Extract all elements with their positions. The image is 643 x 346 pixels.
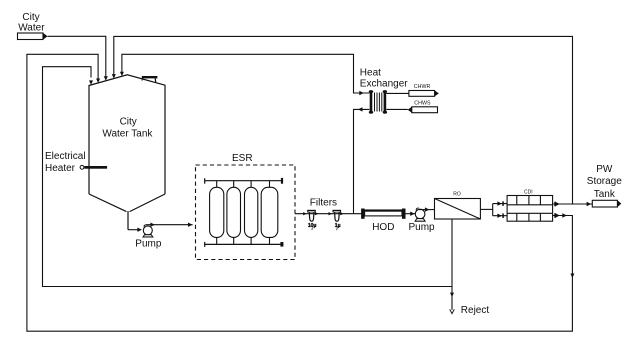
filter F2 xyxy=(333,210,342,221)
svg-text:Exchanger: Exchanger xyxy=(360,79,408,90)
arrow into CDI bottom xyxy=(497,214,502,218)
svg-text:Water Tank: Water Tank xyxy=(102,128,153,139)
svg-text:CHWS: CHWS xyxy=(414,100,431,106)
arrow into ESR xyxy=(188,223,193,227)
filter F1 rating tail xyxy=(311,227,314,230)
arrow after filter F1 xyxy=(315,212,318,215)
wire CHWS to coil xyxy=(386,108,408,110)
filter F1 xyxy=(307,210,316,221)
arrow into pump P1 xyxy=(137,228,142,232)
wire tank outlet to pump xyxy=(128,229,140,231)
arrow into CDI top xyxy=(497,201,502,205)
svg-text:Reject: Reject xyxy=(461,305,490,316)
label PW Storage Tank xyxy=(587,164,622,200)
arrow into filter F1 xyxy=(303,212,306,215)
CHWS flag xyxy=(408,107,438,113)
svg-text:City: City xyxy=(120,117,137,128)
label Electrical Heater xyxy=(45,151,86,174)
tick at CDI bottom outlet xyxy=(554,213,556,218)
arrow after filter F2 xyxy=(340,212,343,215)
svg-text:Heat: Heat xyxy=(360,68,381,79)
arrow CDI bottom outlet xyxy=(555,213,560,217)
wire recirculation loop (CDI bottom out, down right side, bottom, up left side, into tank) xyxy=(27,54,573,331)
tank lid xyxy=(142,76,158,82)
wire CDI top outlet to PW flag xyxy=(553,203,593,205)
HOD vessel xyxy=(361,209,405,219)
heat exchanger coil xyxy=(369,90,387,114)
arrow into PW flag xyxy=(587,202,592,206)
svg-text:CHWR: CHWR xyxy=(414,84,431,90)
arrow CDI top outlet xyxy=(555,202,560,206)
ESR top manifold xyxy=(205,178,282,184)
pump P2 xyxy=(415,208,425,221)
wire pump P2 to RO xyxy=(419,209,435,211)
CDI stack xyxy=(507,196,552,222)
pump P1 xyxy=(143,225,153,237)
svg-text:CDI: CDI xyxy=(524,189,533,195)
wire top return line xyxy=(114,36,573,204)
label Heat Exchanger xyxy=(360,68,408,90)
ESR column 2 xyxy=(227,181,241,245)
arrow into pump P2 xyxy=(410,212,415,216)
svg-text:Heater: Heater xyxy=(45,163,76,174)
wire ESR to filters / main process line xyxy=(295,213,362,215)
label City Water Tank xyxy=(102,117,153,140)
arrow on recirc start xyxy=(562,213,567,217)
CHWR flag xyxy=(409,90,439,96)
arrow into tank (HX line) xyxy=(120,72,124,77)
wire HX feed line xyxy=(122,54,370,93)
arrow into RO xyxy=(425,207,430,211)
electrical heater element xyxy=(80,165,107,169)
svg-text:Electrical: Electrical xyxy=(45,151,86,162)
svg-text:HOD: HOD xyxy=(372,222,394,233)
filter F2 rating 1u xyxy=(335,223,341,229)
label City Water xyxy=(18,12,45,34)
arrow after pump P1 xyxy=(150,223,155,227)
ESR bottom manifold xyxy=(205,242,282,247)
tank City Water Tank xyxy=(89,75,165,230)
filter F2 rating tail xyxy=(336,227,339,230)
svg-text:Storage: Storage xyxy=(587,176,622,187)
arrow down on right vertical xyxy=(570,274,574,279)
city water source flag xyxy=(18,33,48,40)
arrow into heat exchanger coil xyxy=(359,91,364,95)
ESR dashed enclosure xyxy=(196,165,296,260)
wire HOD to pump P2 xyxy=(406,213,416,215)
PW storage flag xyxy=(592,200,621,207)
tick at CDI top inlet xyxy=(502,201,504,206)
svg-text:ESR: ESR xyxy=(232,153,253,164)
svg-text:RO: RO xyxy=(453,192,461,198)
svg-text:1µ: 1µ xyxy=(335,223,341,229)
arrow into tank (inner) xyxy=(89,80,93,85)
wire pump P1 to ESR xyxy=(147,224,193,226)
wire city water feed xyxy=(48,36,106,77)
svg-text:Pump: Pump xyxy=(409,222,436,233)
arrow into tank (recirc) xyxy=(96,79,100,84)
tick at CDI bottom inlet xyxy=(502,213,504,218)
svg-text:Pump: Pump xyxy=(135,239,162,250)
ESR column 3 xyxy=(245,181,258,245)
wire RO to CDI splitter xyxy=(480,208,492,210)
ESR column 4 xyxy=(261,181,278,245)
svg-text:Water: Water xyxy=(18,23,45,34)
svg-text:PW: PW xyxy=(596,164,613,175)
arrow out of coil (left) xyxy=(358,107,363,111)
svg-text:Filters: Filters xyxy=(310,198,337,209)
wire inner loop (tank overflow to reject header) xyxy=(43,67,452,287)
filter F1 rating 10u xyxy=(308,223,317,229)
RO membrane unit xyxy=(435,199,481,220)
wire HX return down to main line xyxy=(354,109,370,213)
open arrow reject end xyxy=(450,309,455,313)
svg-text:City: City xyxy=(22,12,39,23)
tick at CDI top outlet xyxy=(554,202,556,207)
arrow into filter F2 xyxy=(329,212,332,215)
wire coil to CHWR xyxy=(386,92,409,94)
arrow into tank (city water) xyxy=(104,76,108,81)
arrow into tank (top return) xyxy=(112,74,116,79)
ESR column 1 xyxy=(210,181,224,245)
CDI inlet splitter xyxy=(493,204,507,216)
svg-text:Tank: Tank xyxy=(594,189,616,200)
wire RO reject line xyxy=(451,219,453,310)
arrow down on reject line xyxy=(450,293,454,298)
